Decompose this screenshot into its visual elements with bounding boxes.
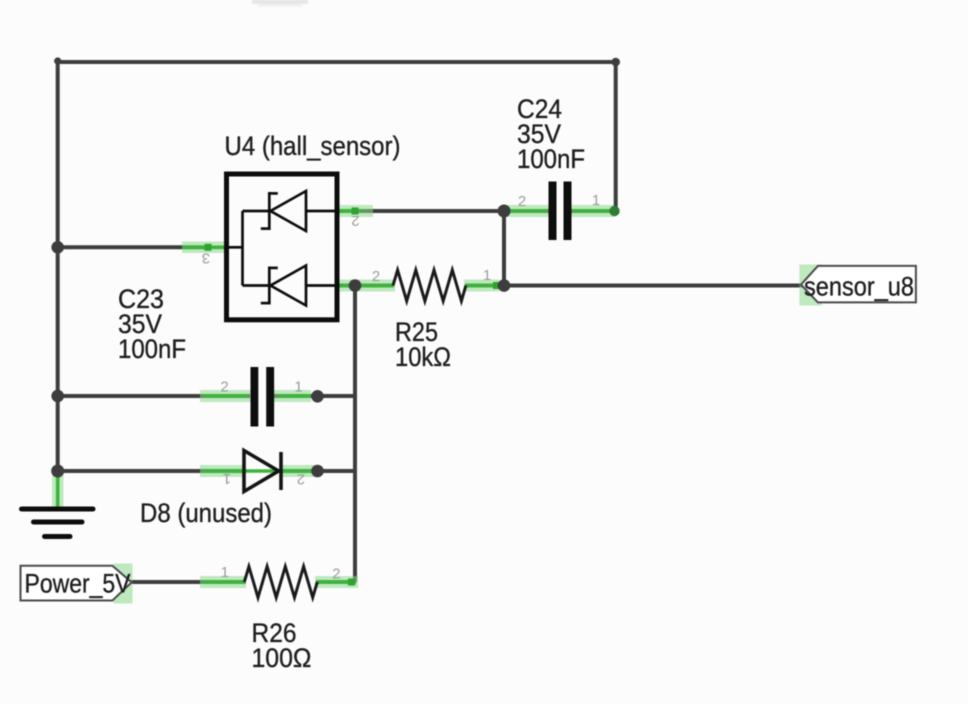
svg-text:2: 2 — [332, 566, 340, 583]
svg-text:1: 1 — [223, 470, 231, 487]
svg-text:D8 (unused): D8 (unused) — [140, 498, 272, 528]
svg-text:Power_5V: Power_5V — [25, 569, 131, 599]
svg-text:100nF: 100nF — [118, 334, 186, 364]
svg-text:2: 2 — [518, 193, 526, 210]
svg-text:2: 2 — [297, 470, 305, 487]
svg-text:100nF: 100nF — [517, 144, 585, 174]
svg-text:1: 1 — [483, 267, 491, 284]
svg-text:1: 1 — [294, 379, 302, 396]
svg-text:3: 3 — [202, 250, 210, 267]
svg-text:100Ω: 100Ω — [252, 643, 312, 673]
svg-text:2: 2 — [220, 379, 228, 396]
svg-text:U4 (hall_sensor): U4 (hall_sensor) — [225, 131, 401, 161]
svg-text:sensor_u8: sensor_u8 — [804, 272, 914, 302]
svg-text:1: 1 — [592, 192, 600, 209]
svg-text:2: 2 — [372, 268, 380, 285]
svg-text:1: 1 — [221, 564, 229, 581]
svg-text:10kΩ: 10kΩ — [395, 342, 451, 372]
svg-text:2: 2 — [351, 212, 359, 229]
